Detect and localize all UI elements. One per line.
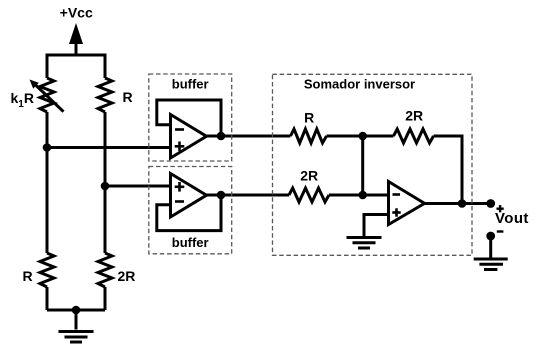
resistor R top right bbox=[98, 78, 112, 112]
op-amp U2 buffer2 bbox=[171, 174, 207, 218]
wire op-amp3 output to Vout bbox=[422, 202, 491, 205]
ground somador bbox=[347, 238, 382, 249]
svg-text:+Vcc: +Vcc bbox=[60, 5, 93, 21]
node Vout - terminal dot bbox=[486, 232, 495, 241]
svg-text:2R: 2R bbox=[405, 108, 423, 124]
wire +Vcc stem bbox=[75, 42, 78, 55]
ground Vout bbox=[474, 259, 508, 270]
node bottom bridge dot bbox=[72, 306, 81, 315]
wire buffer1 output to R bbox=[207, 135, 291, 138]
node A dot bbox=[43, 143, 52, 152]
wire node A to buffer1 + input bbox=[47, 146, 171, 149]
svg-text:Somador inversor: Somador inversor bbox=[304, 77, 415, 92]
wire buffer1 feedback bbox=[157, 100, 221, 136]
box buffer1 dashed bbox=[149, 74, 232, 161]
node B dot bbox=[101, 182, 110, 191]
wire right branch bottom bbox=[104, 287, 107, 310]
wire buffer2 output to 2R bbox=[207, 194, 290, 197]
node feedback output dot bbox=[458, 199, 467, 208]
op-amp U3 somador bbox=[389, 182, 425, 225]
wire left branch middle bbox=[46, 112, 49, 253]
resistor k1R wiper arrow bbox=[35, 84, 64, 112]
wire left branch bottom bbox=[46, 287, 49, 310]
svg-text:R: R bbox=[304, 109, 314, 125]
wire ground stem bottom-left bbox=[75, 310, 78, 330]
power symbol +Vcc arrow bbox=[69, 23, 83, 44]
resistor k1R (variable) bbox=[40, 78, 54, 112]
wire op-amp3 + input to ground bbox=[364, 215, 389, 237]
resistor R bottom left bbox=[40, 253, 54, 287]
svg-text:2R: 2R bbox=[300, 168, 318, 184]
label Vout - sign bbox=[497, 230, 504, 232]
resistor 2R somador input bbox=[289, 188, 329, 202]
svg-text:R: R bbox=[23, 268, 33, 284]
node summing top dot bbox=[358, 132, 367, 141]
svg-text:buffer: buffer bbox=[172, 235, 209, 250]
wire bottom bridge bbox=[47, 309, 105, 312]
box buffer2 dashed bbox=[149, 167, 232, 254]
op-amp U1 buffer1 bbox=[171, 115, 207, 159]
wire R to summing node bbox=[327, 135, 394, 138]
wire 2R feedback right segment bbox=[434, 136, 463, 204]
resistor 2R somador feedback bbox=[394, 129, 434, 143]
node Vout + terminal dot bbox=[486, 199, 495, 208]
box somador dashed bbox=[273, 74, 473, 255]
wire summing node vertical bbox=[361, 136, 364, 195]
ground bottom-left bbox=[59, 332, 94, 343]
label Vout + sign bbox=[497, 205, 504, 212]
svg-text:2R: 2R bbox=[118, 268, 136, 284]
resistor R somador input bbox=[291, 129, 327, 143]
wire Vout ground stem bbox=[489, 236, 492, 258]
svg-text:Vout: Vout bbox=[495, 210, 529, 227]
node summing bottom dot bbox=[358, 191, 367, 200]
wire node B to buffer2 + input bbox=[105, 185, 171, 188]
node buffer2 output dot bbox=[217, 191, 226, 200]
wire top bridge bbox=[47, 55, 105, 78]
svg-text:R: R bbox=[123, 89, 133, 105]
node buffer1 output dot bbox=[217, 132, 226, 141]
wire right branch middle bbox=[104, 112, 107, 253]
resistor 2R bottom right bbox=[98, 253, 112, 287]
svg-text:buffer: buffer bbox=[172, 77, 209, 92]
wire 2R to op-amp inverting input bbox=[329, 194, 389, 197]
wire buffer2 feedback bbox=[157, 195, 221, 231]
